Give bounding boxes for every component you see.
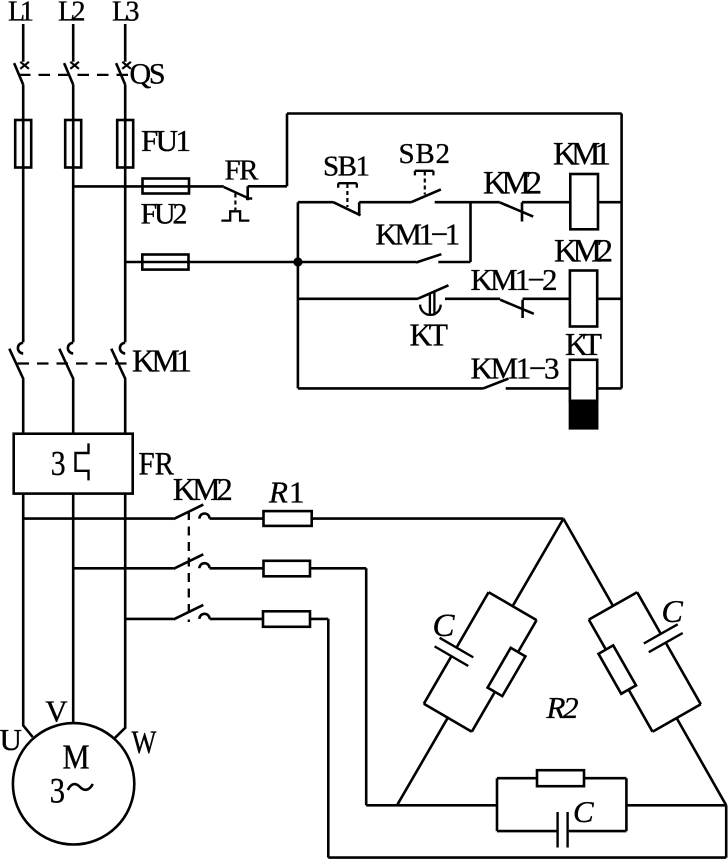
svg-text:QS: QS (130, 58, 166, 91)
svg-text:KM2: KM2 (173, 471, 233, 507)
svg-text:KM2: KM2 (483, 166, 542, 202)
svg-text:FU2: FU2 (141, 198, 188, 231)
svg-text:3: 3 (51, 445, 66, 484)
svg-text:FU1: FU1 (141, 123, 191, 158)
svg-text:C: C (433, 608, 456, 644)
svg-text:W: W (132, 724, 158, 760)
svg-text:KM1: KM1 (132, 343, 192, 379)
svg-text:FR: FR (225, 155, 260, 187)
svg-text:KM1: KM1 (553, 137, 611, 173)
svg-text:KT: KT (565, 327, 602, 362)
svg-text:V: V (45, 693, 68, 728)
svg-text:U: U (0, 722, 22, 757)
svg-text:SB1: SB1 (323, 151, 370, 183)
svg-text:R1: R1 (268, 475, 304, 510)
svg-text:KT: KT (410, 317, 449, 352)
svg-text:L1: L1 (8, 0, 34, 28)
svg-text:C: C (662, 593, 684, 629)
svg-text:M: M (63, 739, 90, 777)
svg-text:FR: FR (139, 445, 175, 482)
svg-text:KM2: KM2 (554, 234, 613, 270)
svg-text:KM1−1: KM1−1 (375, 216, 460, 251)
svg-text:C: C (573, 794, 594, 829)
svg-text:3: 3 (50, 771, 65, 811)
svg-text:L3: L3 (112, 0, 140, 28)
svg-text:KM1−2: KM1−2 (471, 262, 558, 297)
svg-text:KM1−3: KM1−3 (471, 350, 560, 385)
svg-text:SB2: SB2 (399, 138, 451, 170)
svg-text:R2: R2 (546, 690, 579, 725)
svg-text:L2: L2 (58, 0, 86, 28)
